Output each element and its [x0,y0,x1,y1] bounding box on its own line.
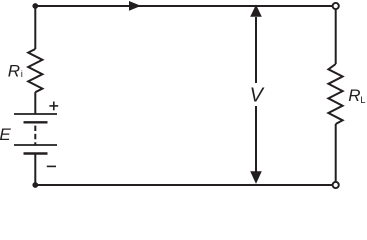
resistor R_i zigzag [28,49,42,92]
svg-text:V: V [250,85,265,107]
terminal: bottom-right open circle [333,182,339,188]
svg-text:i: i [21,69,23,80]
wire: right vertical upper segment [335,9,337,64]
wire: top horizontal [35,5,332,7]
battery E: long plate 1 (+) [14,113,57,115]
wire: left vertical upper segment [34,6,36,49]
svg-text:L: L [360,95,365,106]
terminal: top-right open circle [333,3,339,9]
voltage arrow V: lower shaft [255,106,257,173]
wire: left vertical lower segment [34,154,36,186]
battery E: short plate 1 [24,121,48,123]
battery E: long plate 2 [14,144,57,146]
voltage arrow V: upper arrowhead [250,5,262,17]
svg-text:R: R [348,86,360,105]
svg-text:E: E [0,125,11,144]
battery E: dashed cell continuation [34,126,36,145]
voltage arrow V: upper shaft [255,17,257,83]
svg-text:R: R [8,61,20,80]
resistor R_L zigzag [328,64,342,124]
current direction arrowhead on top wire [129,1,141,11]
node: top-left junction dot [32,3,38,9]
battery E: short plate 2 (-) [24,152,48,154]
battery minus sign [47,165,56,167]
node: bottom-left junction dot [32,182,38,188]
wire: bottom horizontal [35,184,332,186]
battery plus sign [49,102,58,111]
voltage arrow V: lower arrowhead [250,171,262,184]
wire: right vertical lower segment [335,124,337,182]
wire: left vertical between R_i and battery [34,92,36,114]
